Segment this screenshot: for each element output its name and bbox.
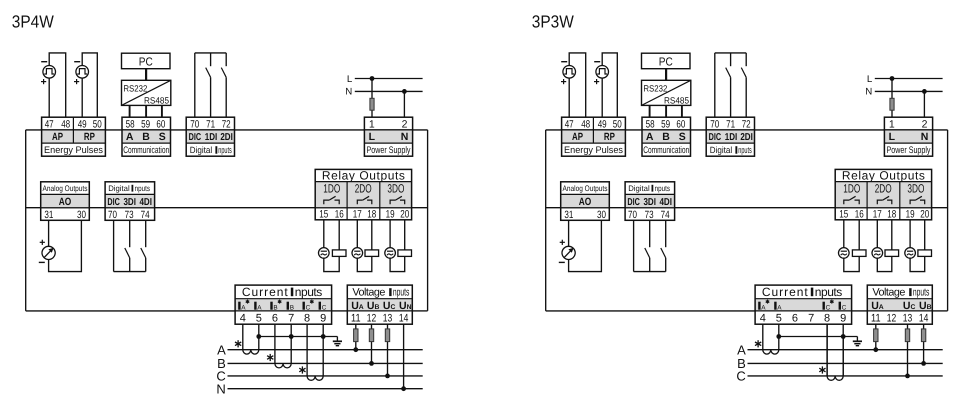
wire: voltage terminal to phase line: [875, 324, 877, 329]
meter body outline right edge: [427, 130, 429, 311]
wire: L to fuse to terminal 1: [891, 79, 893, 99]
wire: converter pin B to terminal 59: [665, 105, 667, 117]
svg-text:50: 50: [613, 118, 622, 130]
polarity mark * (CTA): [235, 340, 241, 347]
svg-text:Power Supply: Power Supply: [367, 145, 411, 156]
junction on current common bus: [321, 334, 326, 339]
svg-text:AO: AO: [579, 196, 592, 208]
current transformer CTB secondary: [275, 363, 291, 367]
svg-text:3DO: 3DO: [387, 181, 404, 195]
junction on phase line: [369, 361, 374, 366]
svg-text:RP: RP: [84, 131, 95, 143]
svg-text:73: 73: [645, 209, 654, 221]
label IA: [774, 302, 776, 310]
svg-text:S: S: [679, 131, 686, 143]
svg-text:Analog Outputs: Analog Outputs: [43, 184, 88, 193]
wire: PC to converter: [665, 69, 667, 81]
polarity minus (AO): [559, 261, 565, 263]
AC source (relay 2DO circuit): [872, 248, 883, 259]
polarity plus (AO): [40, 240, 45, 245]
svg-text:16: 16: [335, 209, 344, 221]
terminal block: Communication (58 59 60, A B S): [642, 130, 691, 143]
svg-text:9: 9: [840, 312, 846, 324]
polarity minus (RP): [74, 61, 80, 63]
relay contact 2DO: [877, 200, 882, 204]
junction on phase line: [385, 374, 390, 379]
label IC: [319, 302, 321, 310]
wire: terminal 70 to common: [714, 53, 716, 117]
svg-text:N: N: [345, 87, 352, 98]
svg-text:3DO: 3DO: [907, 181, 924, 195]
label IB: [287, 302, 289, 310]
terminal block: Energy Pulses (47 48 / 49 50, AP RP): [562, 130, 626, 143]
polarity mark * (CTB): [267, 354, 273, 361]
svg-text:A: A: [777, 305, 782, 312]
polarity plus (AP): [41, 79, 46, 84]
svg-text:Current: Current: [242, 285, 288, 299]
label IC*: [303, 302, 305, 310]
svg-text:59: 59: [141, 118, 150, 130]
svg-text:9: 9: [320, 312, 326, 324]
svg-text:20: 20: [920, 209, 929, 221]
terminal block: Power Supply (1 2, L N): [884, 130, 932, 143]
svg-text:B: B: [273, 305, 277, 312]
svg-text:L: L: [347, 74, 353, 85]
svg-text:47: 47: [565, 118, 574, 130]
svg-text:8: 8: [304, 312, 310, 324]
fuse (voltage input): [874, 329, 878, 342]
svg-text:nputs: nputs: [295, 285, 323, 299]
junction on current common bus: [289, 334, 294, 339]
wire: terminal 70 to common: [113, 220, 115, 271]
svg-text:1DO: 1DO: [843, 181, 860, 195]
svg-text:A: A: [646, 131, 654, 143]
wire: converter pin A to terminal 58: [649, 105, 651, 117]
svg-text:RS232: RS232: [643, 83, 667, 93]
terminal block: Digital Inputs (70 71 72, DIC 1DI 2DI): [186, 130, 234, 143]
svg-text:74: 74: [141, 209, 150, 221]
svg-text:7: 7: [288, 312, 294, 324]
svg-text:nputs: nputs: [815, 285, 843, 299]
wire: terminal to CT dotted end (phase A): [762, 324, 764, 350]
wire: terminal to CT dotted end (phase C): [826, 324, 828, 376]
svg-text:1DI: 1DI: [205, 132, 218, 143]
AC source (relay 2DO circuit): [352, 248, 363, 259]
current transformer CTA secondary: [763, 350, 779, 354]
svg-text:Voltage: Voltage: [352, 287, 385, 299]
svg-text:58: 58: [646, 118, 655, 130]
svg-text:2: 2: [402, 118, 408, 130]
wire: terminal 49 up through pulse source loop to terminal 50: [602, 53, 617, 117]
relay contact 3DO: [390, 200, 395, 204]
wire: voltage terminal to phase line: [387, 324, 389, 329]
svg-text:70: 70: [710, 118, 719, 130]
svg-text:13: 13: [383, 312, 393, 324]
svg-text:PC: PC: [659, 56, 673, 69]
svg-text:N: N: [865, 87, 872, 98]
terminal block: Voltage Inputs (11..14): [867, 299, 932, 311]
relay contact 3DO: [910, 200, 915, 204]
wire: CTC return up to common bus: [322, 337, 324, 376]
AC source (relay 1DO circuit): [839, 248, 850, 259]
svg-text:L: L: [369, 131, 376, 143]
junction on phase line: [873, 347, 878, 352]
svg-text:PC: PC: [139, 56, 153, 69]
svg-text:Digital: Digital: [710, 145, 732, 155]
svg-text:A: A: [241, 305, 246, 312]
load resistor (relay 2DO circuit): [365, 250, 379, 257]
svg-text:DIC: DIC: [189, 132, 202, 143]
switch S4 on input 4DI: [665, 220, 667, 247]
pulse source (RP energy pulse output): [76, 66, 89, 79]
svg-text:Power Supply: Power Supply: [887, 145, 931, 156]
junction on current common bus: [841, 334, 846, 339]
load resistor (relay 1DO circuit): [332, 250, 346, 257]
svg-text:B: B: [662, 131, 670, 143]
svg-text:1: 1: [889, 118, 895, 130]
terminal block: Relay Outputs (1DO 2DO 3DO, 15..20): [835, 182, 931, 208]
svg-text:47: 47: [45, 118, 54, 130]
svg-text:2DI: 2DI: [740, 132, 753, 143]
wire: digital input common bus (top): [195, 52, 226, 54]
polarity plus (RP): [594, 79, 599, 84]
svg-text:49: 49: [78, 118, 87, 130]
svg-text:AO: AO: [59, 196, 72, 208]
wire: relay 3DO load loop: [910, 220, 925, 272]
terminal block: Current Inputs (4..9): [755, 299, 852, 311]
svg-text:7: 7: [808, 312, 814, 324]
terminal block: Digital Inputs (DIC 3DI 4DI, 70 73 74): [625, 194, 675, 207]
wire: relay 1DO load loop: [324, 220, 339, 272]
wire: relay 3DO load loop: [390, 220, 405, 272]
relay contact 1DO: [844, 200, 849, 204]
switch S2 on input 2DI: [745, 53, 747, 66]
svg-text:AP: AP: [572, 131, 583, 143]
wire: voltage terminal to phase line: [355, 324, 357, 329]
earth ground symbol: [853, 340, 862, 342]
svg-text:Energy Pulses: Energy Pulses: [564, 145, 623, 156]
wire: terminal 49 up through pulse source loop to terminal 50: [82, 53, 97, 117]
label IA*: [758, 302, 760, 310]
polarity minus (RP): [594, 61, 600, 63]
svg-text:RS485: RS485: [664, 96, 689, 106]
polarity plus (RP): [74, 79, 79, 84]
svg-text:17: 17: [353, 209, 362, 221]
terminal block: Current Inputs (4..9): [235, 299, 332, 311]
svg-text:6: 6: [792, 312, 798, 324]
wire: digital input common bus (bottom): [114, 271, 146, 273]
svg-text:4DI: 4DI: [139, 197, 152, 208]
wire: current terminal to bus: [290, 324, 292, 336]
svg-text:58: 58: [126, 118, 135, 130]
svg-text:DIC: DIC: [709, 132, 722, 143]
switch S3 on input 3DI: [649, 220, 651, 247]
current transformer CTA secondary: [243, 350, 259, 354]
svg-text:70: 70: [108, 209, 117, 221]
terminal block: Voltage Inputs (11..14): [347, 299, 412, 311]
fuse (voltage input): [354, 329, 358, 342]
svg-text:4DI: 4DI: [659, 197, 672, 208]
junction on current common bus: [256, 334, 261, 339]
wire: terminal to CT dotted end (phase C): [306, 324, 308, 376]
meter body outline left edge: [545, 130, 547, 311]
wire: digital input common bus (bottom): [634, 271, 666, 273]
wire: converter pin A to terminal 58: [129, 105, 131, 117]
svg-text:3DI: 3DI: [643, 197, 656, 208]
svg-text:30: 30: [77, 209, 86, 221]
svg-text:3P4W: 3P4W: [12, 12, 54, 32]
meter body outline left edge: [25, 130, 27, 311]
meter body outline middle edge: [26, 207, 428, 209]
svg-text:1DO: 1DO: [323, 181, 340, 195]
svg-text:4: 4: [760, 312, 766, 324]
wire: current terminal to bus: [258, 324, 260, 336]
current transformer CTC secondary: [307, 376, 323, 380]
svg-text:74: 74: [661, 209, 670, 221]
wire: voltage terminal to phase line: [923, 324, 925, 329]
svg-text:11: 11: [351, 312, 361, 324]
PC box: [122, 53, 171, 68]
svg-text:60: 60: [156, 118, 165, 130]
svg-text:Energy Pulses: Energy Pulses: [44, 145, 103, 156]
wire: CTB return up to common bus: [290, 337, 292, 364]
load resistor (relay 3DO circuit): [398, 250, 412, 257]
svg-text:Voltage: Voltage: [872, 287, 905, 299]
svg-text:nputs: nputs: [393, 287, 410, 299]
switch S3 on input 3DI: [129, 220, 131, 247]
svg-text:71: 71: [726, 118, 735, 130]
svg-text:Current: Current: [762, 285, 808, 299]
svg-text:A: A: [761, 305, 766, 312]
pulse source (AP energy pulse output): [563, 66, 576, 79]
fuse (voltage input): [905, 329, 909, 342]
relay contact 1DO: [324, 200, 329, 204]
svg-text:12: 12: [367, 312, 377, 324]
wire: terminal to CT dotted end (phase A): [242, 324, 244, 350]
svg-text:B: B: [290, 305, 294, 312]
svg-text:8: 8: [824, 312, 830, 324]
svg-text:18: 18: [887, 209, 896, 221]
svg-text:N: N: [401, 131, 409, 143]
wire: terminal 70 to common: [194, 53, 196, 117]
wire: L to fuse to terminal 1: [371, 79, 373, 99]
svg-text:N: N: [921, 131, 929, 143]
wire: N to terminal 2: [923, 91, 925, 117]
junction on phase line: [921, 361, 926, 366]
wire: converter pin S to terminal 60: [681, 105, 683, 117]
AC source (relay 3DO circuit): [385, 248, 396, 259]
svg-text:48: 48: [61, 118, 70, 130]
svg-text:19: 19: [386, 209, 395, 221]
svg-text:2DI: 2DI: [220, 132, 233, 143]
svg-text:18: 18: [367, 209, 376, 221]
svg-text:31: 31: [564, 209, 573, 221]
polarity mark * (CTA): [755, 340, 761, 347]
svg-text:3P3W: 3P3W: [532, 12, 574, 32]
svg-text:N: N: [216, 381, 225, 396]
svg-text:C: C: [736, 369, 745, 384]
wire: current terminal to bus: [322, 324, 324, 336]
svg-text:Digital: Digital: [108, 184, 130, 193]
wire: current terminal to bus: [842, 324, 844, 336]
wire: relay 2DO load loop: [357, 220, 372, 272]
polarity minus (AP): [41, 61, 47, 63]
switch S2 on input 2DI: [225, 53, 227, 66]
svg-text:19: 19: [906, 209, 915, 221]
fuse (voltage input): [369, 329, 373, 342]
wire: CTA return up to common bus: [778, 337, 780, 350]
meter body outline bottom edge segments: [26, 310, 235, 312]
analog output meter M1: [42, 246, 55, 259]
svg-text:6: 6: [272, 312, 278, 324]
terminal block: Energy Pulses (47 48 / 49 50, AP RP): [42, 130, 106, 143]
svg-text:2: 2: [922, 118, 928, 130]
svg-text:70: 70: [628, 209, 637, 221]
wire: terminal 9 down segment: [842, 337, 844, 376]
svg-text:C: C: [322, 305, 327, 312]
polarity plus (AO): [560, 240, 565, 245]
wire: terminal 31 through meter to terminal 30: [569, 220, 602, 271]
svg-text:11: 11: [871, 312, 881, 324]
PC box: [642, 53, 691, 68]
earth ground symbol: [333, 340, 342, 342]
svg-text:15: 15: [319, 209, 328, 221]
svg-text:5: 5: [256, 312, 262, 324]
svg-text:A: A: [257, 305, 262, 312]
wire: relay 1DO load loop: [844, 220, 859, 272]
wire: voltage terminal to phase line: [403, 324, 405, 389]
svg-text:L: L: [889, 131, 896, 143]
wire: bus to earth: [856, 337, 858, 342]
svg-text:48: 48: [581, 118, 590, 130]
junction on L: [370, 76, 375, 81]
wire: current terminal to bus: [778, 324, 780, 336]
polarity plus (AP): [561, 79, 566, 84]
label IC: [839, 302, 841, 310]
svg-text:73: 73: [125, 209, 134, 221]
terminal block: Digital Inputs (70 71 72, DIC 1DI 2DI): [706, 130, 754, 143]
svg-text:C: C: [826, 305, 831, 312]
svg-text:15: 15: [839, 209, 848, 221]
svg-text:49: 49: [598, 118, 607, 130]
wire: bus to earth: [336, 337, 338, 342]
RS232/RS485 converter U-COM: [642, 80, 691, 105]
svg-text:16: 16: [855, 209, 864, 221]
svg-text:Communication: Communication: [123, 145, 169, 156]
wire: current return common bus: [259, 336, 338, 338]
svg-text:60: 60: [676, 118, 685, 130]
left diagram: 3P4W: [12, 12, 428, 396]
polarity mark * (CTC): [299, 366, 305, 373]
svg-text:C: C: [842, 305, 847, 312]
wire: current return common bus: [779, 336, 858, 338]
svg-text:Digital: Digital: [628, 184, 650, 193]
load resistor (relay 3DO circuit): [918, 250, 932, 257]
svg-text:3DI: 3DI: [123, 197, 136, 208]
junction on phase line: [401, 386, 406, 391]
svg-text:AP: AP: [52, 131, 63, 143]
pulse source (RP energy pulse output): [596, 66, 609, 79]
svg-text:70: 70: [190, 118, 199, 130]
svg-text:5: 5: [776, 312, 782, 324]
polarity minus (AP): [561, 61, 567, 63]
label IA*: [238, 302, 240, 310]
svg-text:12: 12: [887, 312, 897, 324]
svg-text:nputs: nputs: [655, 184, 670, 193]
wire: converter pin B to terminal 59: [145, 105, 147, 117]
junction on N: [922, 89, 927, 94]
wire: terminal 70 to common: [633, 220, 635, 271]
svg-text:Digital: Digital: [190, 145, 212, 155]
svg-text:Communication: Communication: [643, 145, 689, 156]
wire: terminal 8 down to CT C (crossing): [826, 324, 828, 376]
meter body outline middle edge: [546, 207, 948, 209]
wire: relay 2DO load loop: [877, 220, 892, 272]
fuse F1 (power supply): [890, 98, 894, 110]
right diagram: 3P3W: [532, 12, 948, 384]
switch S1 on input 1DI: [210, 53, 212, 66]
svg-text:DIC: DIC: [627, 197, 640, 208]
relay contact 2DO: [357, 200, 362, 204]
svg-text:S: S: [159, 131, 166, 143]
svg-text:Relay Outputs: Relay Outputs: [842, 168, 925, 182]
svg-text:72: 72: [742, 118, 751, 130]
svg-text:RS232: RS232: [123, 83, 147, 93]
terminal block: Analog Outputs (AO, 31 30): [41, 194, 90, 207]
svg-text:31: 31: [44, 209, 53, 221]
wire: converter pin S to terminal 60: [161, 105, 163, 117]
polarity mark * (CTC): [819, 366, 825, 373]
svg-text:50: 50: [93, 118, 102, 130]
AC source (relay 3DO circuit): [905, 248, 916, 259]
load resistor (relay 1DO circuit): [852, 250, 866, 257]
label IC*: [823, 302, 825, 310]
svg-text:Analog Outputs: Analog Outputs: [563, 184, 608, 193]
svg-text:2DO: 2DO: [355, 181, 372, 195]
polarity minus (AO): [39, 261, 45, 263]
terminal block: Power Supply (1 2, L N): [364, 130, 412, 143]
svg-text:DIC: DIC: [107, 197, 120, 208]
svg-text:L: L: [867, 74, 873, 85]
svg-text:4: 4: [240, 312, 246, 324]
meter body outline top edge: [546, 129, 948, 131]
svg-text:RP: RP: [604, 131, 615, 143]
current transformer CTC secondary: [827, 376, 843, 380]
load resistor (relay 2DO circuit): [885, 250, 899, 257]
meter body outline top edge: [26, 129, 428, 131]
wire: PC to converter: [145, 69, 147, 81]
svg-text:Relay Outputs: Relay Outputs: [322, 168, 405, 182]
svg-text:C: C: [306, 305, 311, 312]
wire: N to terminal 2: [403, 91, 405, 117]
meter body outline right edge: [947, 130, 949, 311]
svg-text:14: 14: [399, 312, 409, 324]
svg-text:nputs: nputs: [135, 184, 150, 193]
wire: CTC return up to common bus: [842, 337, 844, 376]
wire: terminal 31 through meter to terminal 30: [49, 220, 82, 271]
svg-text:72: 72: [222, 118, 231, 130]
label IA: [254, 302, 256, 310]
junction on L: [890, 76, 895, 81]
svg-text:A: A: [126, 131, 134, 143]
svg-text:B: B: [142, 131, 150, 143]
svg-text:13: 13: [903, 312, 913, 324]
svg-text:nputs: nputs: [913, 287, 930, 299]
switch S1 on input 1DI: [730, 53, 732, 66]
wire: digital input common bus (top): [715, 52, 746, 54]
wire: terminal to CT dotted end (phase B): [274, 324, 276, 363]
svg-text:RS485: RS485: [144, 96, 169, 106]
